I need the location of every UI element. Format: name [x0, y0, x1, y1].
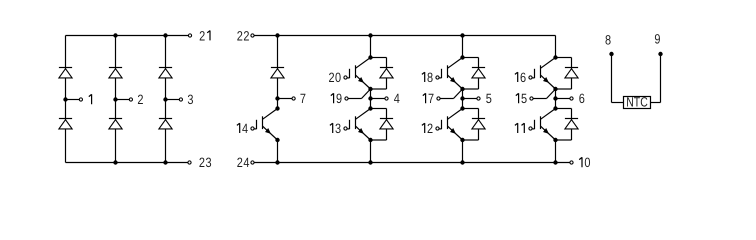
- svg-text:4: 4: [394, 91, 400, 106]
- diode D7 (brake chopper diode): [271, 68, 284, 78]
- wire aux emitter 19 diagonal to emitter node: [362, 89, 371, 99]
- label terminal 22: [237, 28, 250, 43]
- node AC phase 3 (mid of rectifier leg 3): [163, 97, 167, 101]
- node: Q4 collector / FWD cathode: [460, 106, 464, 110]
- terminal 8 (NTC): [609, 52, 613, 56]
- label terminal 12: [422, 121, 433, 136]
- diode D13 symbol: [565, 119, 578, 129]
- node: Q3 collector / FWD cathode: [460, 55, 464, 59]
- label terminal 3: [187, 92, 193, 107]
- node phase V output tap: [460, 96, 464, 100]
- wire terminal 8 down: [611, 54, 613, 103]
- wire phase U output stub to terminal 4: [371, 98, 385, 100]
- transistor Q2 (IGBT low-side phase U, gate terminal 13): [347, 109, 371, 141]
- node: Q2 emitter / FWD anode: [368, 138, 372, 142]
- node: brake IGBT collector: [275, 106, 279, 110]
- wire phase U leg: lower emitter to DC- rail: [370, 140, 372, 163]
- svg-text:2: 2: [199, 28, 205, 43]
- diode D1 (rectifier upper, AC1 to +): [59, 68, 72, 78]
- wire phase W leg: emitter to lower collector: [555, 89, 557, 109]
- node: Q6 collector / FWD cathode: [553, 106, 557, 110]
- diode D10 (freewheel diode across Q3): [463, 58, 479, 90]
- wire node 7 stub to terminal 7: [278, 98, 293, 100]
- label terminal 11: [515, 123, 524, 133]
- diode D8 symbol: [380, 68, 393, 78]
- transistor Q3 (IGBT high-side phase V, gate terminal 18): [439, 58, 463, 90]
- node: Q5 collector / FWD cathode: [553, 55, 557, 59]
- wire brake leg upper vertical: [277, 36, 279, 109]
- svg-text:0: 0: [584, 155, 590, 170]
- diode D9 symbol: [380, 119, 393, 129]
- svg-text:2: 2: [237, 28, 243, 43]
- svg-text:NTC: NTC: [626, 95, 648, 110]
- svg-text:3: 3: [205, 155, 211, 170]
- terminal 7 (brake resistor): [292, 97, 295, 100]
- diode D6 (rectifier lower, - to AC3): [159, 119, 172, 129]
- wire phase U leg: rail to top collector: [370, 36, 372, 58]
- svg-text:9: 9: [654, 32, 660, 47]
- node: DC- rail / phase U leg junction: [368, 160, 372, 164]
- label terminal 13: [330, 121, 341, 136]
- wire inverter DC+ top rail: [254, 35, 555, 37]
- label terminal 7: [300, 91, 306, 106]
- terminal 13 (gate of Q2): [344, 127, 347, 130]
- svg-text:3: 3: [187, 92, 193, 107]
- label terminal 23: [199, 155, 212, 170]
- node: Q1 collector / FWD cathode: [368, 55, 372, 59]
- wire inverter DC- bottom rail: [254, 162, 569, 164]
- label terminal 5: [486, 91, 492, 106]
- svg-text:9: 9: [336, 91, 342, 106]
- node: rectifier bottom rail / leg 3 junction: [163, 160, 167, 164]
- node: rectifier top rail / leg 2 junction: [113, 33, 117, 37]
- wire aux emitter 15 diagonal to emitter node: [547, 89, 556, 99]
- node: Q2 collector / FWD cathode: [368, 106, 372, 110]
- terminal 10 (brake / DC- out): [570, 161, 573, 164]
- diode D13 (freewheel diode across Q6): [556, 109, 572, 141]
- terminal 24 (inverter DC-): [251, 161, 254, 164]
- wire phase V leg: lower emitter to DC- rail: [462, 140, 464, 163]
- wire aux emitter 17 diagonal to emitter node: [454, 89, 463, 99]
- diode D4 (rectifier lower, - to AC1): [59, 119, 72, 129]
- terminal 2: [129, 98, 132, 101]
- node: DC+ rail / phase U leg junction: [368, 33, 372, 37]
- label terminal 20: [328, 70, 341, 85]
- node: Q5 emitter / FWD anode: [553, 87, 557, 91]
- terminal 20 (gate of Q1): [344, 76, 347, 79]
- svg-text:8: 8: [605, 32, 611, 47]
- transistor Q4 (IGBT low-side phase V, gate terminal 12): [439, 109, 463, 141]
- terminal 16 (gate of Q5): [529, 76, 532, 79]
- diode D2 (rectifier upper, AC2 to +): [109, 68, 122, 78]
- wire aux emitter 19 horizontal: [348, 98, 361, 100]
- node: Q1 emitter / FWD anode: [368, 87, 372, 91]
- node phase U output tap: [368, 96, 372, 100]
- wire top DC+ rail of rectifier bridge: [66, 35, 189, 37]
- wire AC phase 3 stub to terminal 3: [166, 99, 180, 101]
- node: brake IGBT emitter: [275, 138, 279, 142]
- terminal 5 (phase V output): [477, 97, 480, 100]
- node AC phase 2 (mid of rectifier leg 2): [113, 97, 117, 101]
- label terminal 18: [422, 70, 433, 85]
- thermistor R1 (NTC) box: [624, 97, 651, 109]
- svg-text:4: 4: [242, 121, 248, 136]
- node: Q6 emitter / FWD anode: [553, 138, 557, 142]
- diode D5 (rectifier lower, - to AC2): [109, 119, 122, 129]
- label terminal 24: [237, 155, 250, 170]
- svg-text:3: 3: [335, 121, 341, 136]
- label terminal 8: [605, 32, 611, 47]
- wire phase W leg: rail to top collector: [555, 36, 557, 58]
- wire phase W output stub to terminal 6: [556, 98, 570, 100]
- label terminal 21: [199, 28, 210, 43]
- label terminal 9: [654, 32, 660, 47]
- wire brake IGBT emitter to DC- rail: [277, 140, 279, 163]
- terminal 17 (auxiliary emitter of Q3): [437, 97, 440, 100]
- terminal 3: [179, 98, 182, 101]
- svg-text:8: 8: [427, 70, 433, 85]
- wire NTC box to terminal 9: [651, 102, 661, 104]
- node: Q4 emitter / FWD anode: [460, 138, 464, 142]
- terminal 19 (auxiliary emitter of Q1): [345, 97, 348, 100]
- transistor Q5 (IGBT high-side phase W, gate terminal 16): [532, 58, 556, 90]
- node: DC+ rail / brake leg junction: [275, 33, 279, 37]
- label terminal 2: [137, 92, 143, 107]
- wire AC phase 2 stub to terminal 2: [116, 99, 130, 101]
- terminal 23 (rectifier DC-): [188, 161, 191, 164]
- label terminal 15: [516, 91, 527, 106]
- svg-text:2: 2: [237, 155, 243, 170]
- svg-text:6: 6: [520, 70, 526, 85]
- diode D3 (rectifier upper, AC3 to +): [159, 68, 172, 78]
- diode D12 symbol: [565, 68, 578, 78]
- label terminal 1: [89, 94, 92, 104]
- terminal 21 (rectifier DC+): [188, 34, 191, 37]
- wire phase V output stub to terminal 5: [463, 98, 477, 100]
- diode D9 (freewheel diode across Q2): [371, 109, 387, 141]
- diode D11 (freewheel diode across Q4): [463, 109, 479, 141]
- label terminal 17: [423, 91, 434, 106]
- wire rectifier leg 3 vertical: [165, 36, 167, 163]
- terminal 4 (phase U output): [385, 97, 388, 100]
- svg-text:2: 2: [427, 121, 433, 136]
- svg-text:6: 6: [579, 91, 585, 106]
- terminal 11 (gate of Q6): [529, 127, 532, 130]
- svg-text:5: 5: [521, 91, 527, 106]
- label terminal 4: [394, 91, 400, 106]
- node: DC- rail / brake leg junction: [275, 160, 279, 164]
- label terminal 14: [237, 121, 249, 136]
- terminal 9 (NTC): [658, 52, 662, 56]
- transistor Q1 (IGBT high-side phase U, gate terminal 20): [347, 58, 371, 90]
- wire aux emitter 15 horizontal: [533, 98, 546, 100]
- svg-text:7: 7: [300, 91, 306, 106]
- terminal 6 (phase W output): [570, 97, 573, 100]
- node phase W output tap: [553, 96, 557, 100]
- wire aux emitter 17 horizontal: [440, 98, 453, 100]
- node: rectifier top rail / leg 3 junction: [163, 33, 167, 37]
- label terminal 10: [579, 155, 590, 170]
- svg-text:7: 7: [428, 91, 434, 106]
- terminal 12 (gate of Q4): [436, 127, 439, 130]
- node: Q3 emitter / FWD anode: [460, 87, 464, 91]
- wire terminal 9 down: [660, 54, 662, 103]
- diode D8 (freewheel diode across Q1): [371, 58, 387, 90]
- terminal 18 (gate of Q3): [436, 76, 439, 79]
- wire phase V leg: emitter to lower collector: [462, 89, 464, 109]
- transistor Q6 (IGBT low-side phase W, gate terminal 11): [532, 109, 556, 141]
- node: DC- rail / phase W leg junction: [553, 160, 557, 164]
- svg-text:2: 2: [199, 155, 205, 170]
- node AC phase 1 (mid of rectifier leg 1): [63, 97, 67, 101]
- terminal 15 (auxiliary emitter of Q5): [530, 97, 533, 100]
- label terminal 6: [579, 91, 585, 106]
- svg-text:2: 2: [243, 28, 249, 43]
- node: DC- rail / phase V leg junction: [460, 160, 464, 164]
- wire terminal 8 to NTC box: [612, 102, 624, 104]
- wire rectifier leg 2 vertical: [115, 36, 117, 163]
- diode D10 symbol: [472, 68, 485, 78]
- wire phase V leg: rail to top collector: [462, 36, 464, 58]
- node: DC+ rail / phase V leg junction: [460, 33, 464, 37]
- svg-text:2: 2: [137, 92, 143, 107]
- svg-text:0: 0: [335, 70, 341, 85]
- wire bottom DC- rail of rectifier bridge: [66, 162, 188, 164]
- svg-text:4: 4: [243, 155, 249, 170]
- terminal 1: [79, 98, 82, 101]
- wire phase U leg: emitter to lower collector: [370, 89, 372, 109]
- diode D12 (freewheel diode across Q5): [556, 58, 572, 90]
- node: rectifier bottom rail / leg 2 junction: [113, 160, 117, 164]
- wire AC phase 1 stub to terminal 1: [66, 99, 80, 101]
- wire phase W leg: lower emitter to DC- rail: [555, 140, 557, 163]
- svg-text:5: 5: [486, 91, 492, 106]
- terminal 14 (gate of Q7): [251, 127, 254, 130]
- terminal 22 (inverter DC+): [251, 34, 254, 37]
- label terminal 19: [331, 91, 342, 106]
- diode D11 symbol: [472, 119, 485, 129]
- transistor Q7 (brake IGBT, gate terminal 14): [254, 109, 278, 141]
- svg-text:2: 2: [328, 70, 334, 85]
- label terminal 16: [515, 70, 526, 85]
- wire rectifier leg 1 vertical: [65, 36, 67, 163]
- node terminal-7 tap on brake leg: [275, 96, 279, 100]
